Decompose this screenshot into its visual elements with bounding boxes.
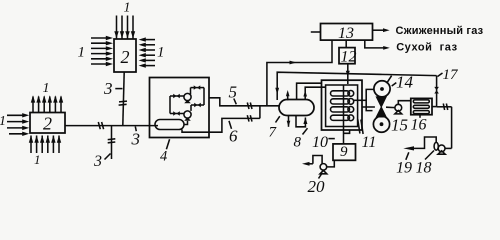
svg-text:1: 1 xyxy=(157,45,165,61)
svg-text:4: 4 xyxy=(160,149,167,165)
svg-text:11: 11 xyxy=(362,134,377,151)
svg-text:19: 19 xyxy=(396,160,412,177)
svg-text:16: 16 xyxy=(411,117,427,134)
svg-text:20: 20 xyxy=(308,177,326,196)
svg-text:14: 14 xyxy=(396,73,414,92)
svg-text:1: 1 xyxy=(0,114,6,129)
svg-text:5: 5 xyxy=(229,83,238,102)
svg-text:6: 6 xyxy=(229,127,238,146)
svg-text:1: 1 xyxy=(34,152,41,167)
svg-text:2: 2 xyxy=(121,47,130,67)
svg-text:3: 3 xyxy=(131,130,141,149)
svg-text:1: 1 xyxy=(124,1,131,16)
svg-text:7: 7 xyxy=(269,125,278,141)
svg-text:9: 9 xyxy=(340,144,348,160)
svg-text:Сжиженный газ: Сжиженный газ xyxy=(396,25,484,37)
svg-text:3: 3 xyxy=(103,79,113,98)
svg-text:10: 10 xyxy=(312,134,328,151)
svg-text:18: 18 xyxy=(416,160,432,177)
svg-text:3: 3 xyxy=(93,153,102,170)
svg-text:8: 8 xyxy=(294,135,302,151)
svg-text:Сухой газ: Сухой газ xyxy=(396,42,457,54)
svg-text:13: 13 xyxy=(338,25,354,42)
svg-text:15: 15 xyxy=(391,116,408,135)
svg-text:1: 1 xyxy=(43,81,50,96)
svg-text:2: 2 xyxy=(43,114,52,134)
svg-text:12: 12 xyxy=(341,49,357,66)
svg-text:1: 1 xyxy=(78,45,86,61)
svg-text:17: 17 xyxy=(443,67,460,83)
